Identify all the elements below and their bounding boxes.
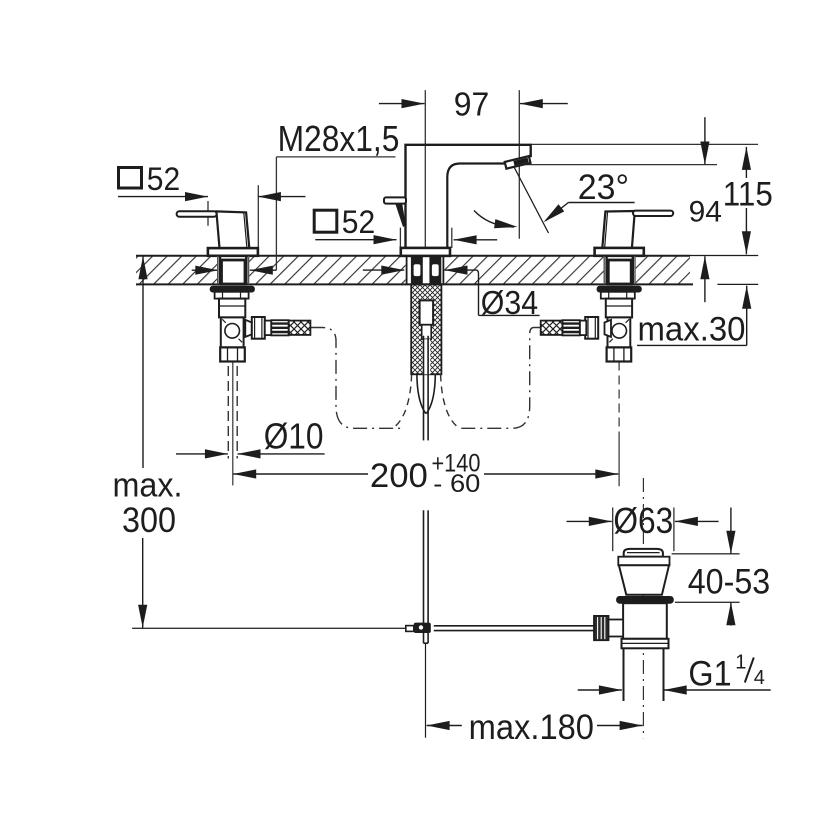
- svg-text:max.30: max.30: [638, 310, 746, 348]
- svg-text:94: 94: [689, 195, 722, 228]
- svg-text:52: 52: [147, 161, 180, 197]
- svg-text:52: 52: [342, 204, 375, 240]
- svg-text:40-53: 40-53: [688, 562, 771, 601]
- svg-text:- 60: - 60: [433, 470, 480, 498]
- svg-text:Ø63: Ø63: [613, 500, 673, 541]
- svg-text:max.: max.: [113, 467, 183, 505]
- svg-text:M28x1,5: M28x1,5: [278, 118, 400, 159]
- svg-text:200: 200: [370, 457, 428, 495]
- svg-text:G1: G1: [688, 654, 731, 693]
- svg-text:Ø10: Ø10: [264, 416, 324, 457]
- svg-text:115: 115: [723, 176, 773, 214]
- svg-text:Ø34: Ø34: [481, 284, 538, 321]
- svg-text:97: 97: [454, 86, 490, 123]
- svg-text:1: 1: [735, 651, 746, 673]
- svg-text:4: 4: [754, 667, 765, 689]
- svg-text:300: 300: [122, 501, 176, 540]
- svg-text:max.180: max.180: [469, 708, 594, 747]
- svg-text:23°: 23°: [578, 168, 629, 207]
